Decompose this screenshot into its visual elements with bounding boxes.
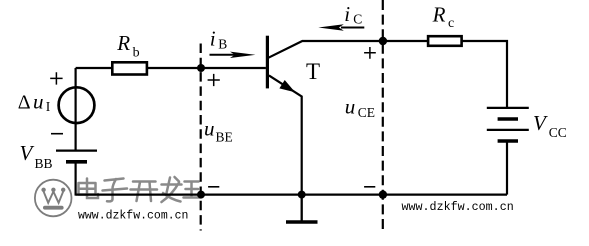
transistor T bar: [266, 36, 269, 89]
svg-text:T: T: [306, 59, 320, 84]
node C dot: [379, 37, 387, 45]
svg-text:R: R: [116, 31, 130, 55]
transistor emitter wire: [269, 75, 302, 194]
dashed line left (input port): [200, 44, 202, 231]
svg-text:I: I: [46, 99, 51, 114]
watermark logo circle W: [35, 180, 72, 217]
watermark chinese text wang: [184, 182, 201, 198]
node emitter-ground dot: [298, 191, 306, 199]
svg-text:www.dzkfw.com.cn: www.dzkfw.com.cn: [78, 209, 188, 222]
battery VBB short plate: [66, 160, 87, 164]
svg-text:b: b: [133, 45, 140, 60]
svg-text:V: V: [20, 141, 35, 165]
watermark chinese text dian: [79, 179, 99, 199]
plus sign uCE: [364, 47, 376, 59]
watermark chinese text zi: [103, 179, 128, 202]
node bottom-right dot: [379, 190, 387, 198]
arrow iB: [210, 54, 237, 56]
source circle delta-uI: [59, 87, 95, 123]
svg-text:www.dzkfw.com.cn: www.dzkfw.com.cn: [402, 200, 514, 214]
svg-text:u: u: [33, 89, 44, 113]
svg-text:c: c: [448, 16, 454, 31]
plus sign uBE: [208, 74, 220, 86]
svg-text:u: u: [345, 94, 356, 118]
minus sign source: [51, 133, 63, 135]
battery VBB long plate: [56, 150, 97, 152]
wire top-left horizontal: [76, 67, 112, 69]
minus sign uBE: [208, 186, 219, 188]
svg-text:V: V: [533, 111, 548, 135]
watermark chinese text kai: [131, 182, 158, 202]
node B dot: [197, 64, 205, 72]
svg-text:BB: BB: [35, 156, 53, 171]
dashed line right (output port): [382, 0, 384, 231]
transistor collector wire: [269, 41, 508, 107]
battery VCC plate long 2: [487, 129, 529, 131]
resistor Rb: [112, 62, 147, 74]
svg-text:u: u: [204, 117, 215, 141]
wire left vertical upper (through source): [74, 68, 76, 150]
wire Rb to base: [148, 67, 266, 69]
ground stub: [301, 195, 303, 221]
plus sign source: [50, 72, 62, 84]
arrow iC: [341, 27, 364, 29]
wire bottom rail: [76, 193, 507, 195]
svg-text:i: i: [210, 26, 216, 50]
watermark chinese text fa: [162, 177, 182, 202]
resistor Rc: [428, 36, 462, 46]
svg-text:B: B: [218, 36, 227, 51]
transistor emitter arrowhead: [281, 81, 294, 91]
battery VCC plate short 1: [498, 117, 518, 121]
svg-text:R: R: [432, 3, 446, 27]
svg-text:Δ: Δ: [18, 91, 31, 113]
svg-text:CE: CE: [358, 105, 375, 120]
battery VCC plate short 2: [498, 139, 518, 143]
svg-text:i: i: [344, 2, 350, 26]
svg-text:C: C: [353, 11, 362, 26]
wire left vertical lower: [74, 163, 76, 195]
ground bar: [286, 220, 318, 223]
minus sign uCE: [364, 186, 375, 188]
node bottom-left dot: [197, 191, 205, 199]
svg-text:BE: BE: [216, 129, 233, 144]
svg-text:CC: CC: [549, 125, 567, 140]
wire right vertical lower: [506, 142, 508, 195]
battery VCC plate long 1: [487, 107, 529, 109]
